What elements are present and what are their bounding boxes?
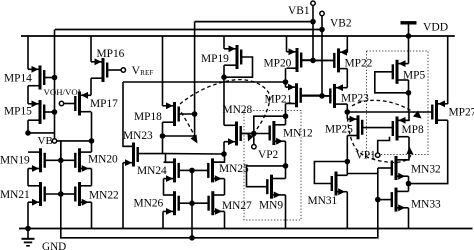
svg-text:VDD: VDD <box>423 21 448 34</box>
node MN26/MN27 gate <box>189 200 195 206</box>
svg-text:VP2: VP2 <box>258 149 279 161</box>
node MP23 drain <box>345 109 351 115</box>
wire MN31 source to ground <box>346 192 348 229</box>
svg-text:MP14: MP14 <box>4 73 32 85</box>
transistor MN32 <box>395 156 398 180</box>
node MN32/MN33 gate <box>375 197 381 203</box>
transistor MP18 <box>173 102 176 126</box>
node VREF bus end <box>283 79 289 85</box>
wire MN33 source to ground <box>408 208 410 229</box>
wire rail to MP19 source <box>223 36 225 49</box>
wire VB1 drop to MP18 <box>194 22 196 114</box>
transistor MN9 <box>270 175 273 199</box>
node MP15 drain <box>25 130 31 136</box>
wire MP5 drain down <box>408 80 410 93</box>
wire MP25 source <box>346 112 348 119</box>
wire MN27 source to ground <box>224 211 226 228</box>
wire MP20 drain down <box>285 68 287 82</box>
wire MP18 drain to MN23 gate <box>162 136 164 154</box>
transistor MP16 <box>102 58 105 82</box>
ground symbol <box>27 229 29 239</box>
transistor MP14 <box>39 66 42 90</box>
wire MP21 drain to MN28 gate <box>254 116 286 133</box>
svg-text:MP22: MP22 <box>345 58 373 70</box>
wire MP14 drain to MP15 source <box>27 86 29 104</box>
terminal VP2 <box>252 145 256 149</box>
transistor MP17 <box>78 92 81 116</box>
terminal VREF <box>121 68 125 72</box>
svg-text:VB1: VB1 <box>288 5 310 17</box>
transistor MN31 <box>335 172 338 196</box>
transistor MP25 <box>357 115 360 139</box>
wire to VB terminal <box>54 133 56 139</box>
node VB2 gate junction <box>319 93 325 99</box>
transistor MP8 <box>396 117 399 141</box>
wire MP25 drain down <box>346 136 348 162</box>
wire VDD rail (top, y=36) <box>21 35 455 37</box>
wire MN9 source to ground <box>285 195 287 229</box>
wire MN20 source to MN22 drain <box>91 169 93 186</box>
node VP2 gate junction <box>251 131 257 137</box>
wire MN25 source down <box>224 179 226 195</box>
node VDD-rail junction <box>406 33 412 39</box>
wire output to MP27 drain <box>409 120 448 183</box>
node MN19/MN20 gate <box>58 158 64 164</box>
terminal VOH/VOL <box>59 101 63 105</box>
svg-text:GND: GND <box>42 241 66 250</box>
wire rail to MP14 source <box>27 36 29 69</box>
wire MP8 source <box>399 112 410 120</box>
wire MP17 drain to VB node <box>91 112 93 141</box>
svg-text:MP15: MP15 <box>4 106 32 118</box>
wire MP18 drain down <box>162 122 164 136</box>
wire MP23 drain down <box>346 104 348 112</box>
wire MN24 source down <box>163 179 165 195</box>
svg-text:MP5: MP5 <box>403 70 425 82</box>
wire MN25 drain up <box>213 154 225 162</box>
svg-text:MN24: MN24 <box>137 165 167 177</box>
wire MN21 source to ground <box>27 202 29 228</box>
terminal VP1 <box>376 153 380 157</box>
wire VB2 drop to MP21/MP23 gates <box>321 30 323 96</box>
transistor MP22 <box>337 48 340 72</box>
dashed arrow B (MP18 to VP2) <box>180 80 270 137</box>
transistor MN22 <box>78 182 81 206</box>
node MP14 gate <box>52 75 58 81</box>
wire MN31 drain up <box>346 162 348 176</box>
node VB junction <box>89 138 95 144</box>
wire MN28 bus <box>166 153 225 155</box>
transistor MN28 <box>235 122 238 146</box>
wire gate chain to bias line <box>191 203 193 238</box>
wire VREF bus <box>123 81 286 83</box>
wire MN23 gate to MN24 drain <box>138 154 175 163</box>
node MP18 drain <box>160 133 166 139</box>
transistor MP19 <box>236 45 239 69</box>
svg-text:MN33: MN33 <box>411 199 441 211</box>
wire MN12 drain up <box>285 116 287 125</box>
svg-text:MN25: MN25 <box>219 163 249 175</box>
svg-text:MP18: MP18 <box>134 111 162 123</box>
wire rail to MP16 source <box>90 36 92 62</box>
wire MN33 drain up <box>408 184 410 192</box>
svg-text:MN21: MN21 <box>0 189 30 201</box>
dotted box output pair <box>367 51 429 155</box>
wire VREF down <box>123 82 134 146</box>
wire VB2 left drop <box>54 30 56 133</box>
svg-text:MN12: MN12 <box>283 128 313 140</box>
svg-text:MP23: MP23 <box>341 93 369 105</box>
svg-text:MN23: MN23 <box>123 130 153 142</box>
node MN33 drain <box>406 181 412 187</box>
transistor MP27 <box>435 100 438 124</box>
wire MN31 gate wrap <box>314 162 347 184</box>
wire MP8 source drop <box>408 93 410 112</box>
wire MN28 source down <box>223 142 225 154</box>
wire MP18 gate-drain link <box>163 114 195 136</box>
svg-text:MP20: MP20 <box>264 58 292 70</box>
wire MN20 drain up <box>91 141 93 152</box>
node VB1 rail junction <box>310 19 316 25</box>
wire MP21 drain down <box>285 104 287 117</box>
node MP5 diode <box>406 90 412 96</box>
node MP21 drain <box>283 113 289 119</box>
wire MP22 drain to MP23 source <box>346 69 348 88</box>
node VB1 gate junction <box>310 58 316 64</box>
terminal VB2 <box>320 11 324 15</box>
transistor MN27 <box>211 191 214 215</box>
wire rail to MP22 source <box>346 36 348 53</box>
svg-text:MP25: MP25 <box>325 123 353 135</box>
wire rail to MP27 source <box>447 36 449 104</box>
transistor MN33 <box>395 188 398 212</box>
wire MP19 drain down <box>223 65 225 77</box>
wire rail to MP18 source <box>162 36 164 106</box>
svg-text:VOH/VOL: VOH/VOL <box>44 87 84 97</box>
svg-text:MP8: MP8 <box>402 124 424 136</box>
wire MN22 source to ground <box>91 202 93 228</box>
wire MP20/MP22 gate wire <box>301 59 334 61</box>
wire MP21 source <box>285 82 287 87</box>
wire MP16 drain to MP17 source <box>90 78 92 95</box>
transistor MP23 <box>333 84 336 108</box>
node MN21/MN22 gate <box>58 191 64 197</box>
dashed arrow A (MP18 to MN24 gate) <box>178 107 196 138</box>
wire VB1 rail (y=21.6) <box>195 21 313 23</box>
transistor MP20 <box>296 48 299 72</box>
wire MN23 source to ground <box>122 163 124 229</box>
svg-text:MN32: MN32 <box>411 164 441 176</box>
svg-text:VB: VB <box>38 135 53 147</box>
transistor MN25 <box>211 158 214 182</box>
node MN9 drain <box>283 163 289 169</box>
svg-text:MN19: MN19 <box>0 155 30 167</box>
transistor MN12 <box>272 121 275 145</box>
svg-text:MN26: MN26 <box>134 198 164 210</box>
wire bias bottom line <box>61 141 378 238</box>
svg-text:MP17: MP17 <box>90 98 118 110</box>
transistor MP15 <box>39 100 42 124</box>
wire MP19 gate loop <box>224 57 253 77</box>
svg-text:MN9: MN9 <box>259 200 283 212</box>
svg-text:MN20: MN20 <box>88 154 118 166</box>
transistor MP21 <box>295 83 298 107</box>
terminal VB <box>52 139 56 143</box>
wire MN26 source to ground <box>162 211 164 228</box>
wire MP8 drain to MN32 drain <box>398 137 409 160</box>
wire MP5 gate loop <box>375 72 408 93</box>
wire VB to MN20 drain <box>57 140 92 142</box>
terminal VB1 <box>311 1 315 5</box>
svg-text:MN22: MN22 <box>89 190 119 202</box>
wire MN9 gate wrap <box>247 166 286 187</box>
wire VB1 drop to MP20/MP22 gates <box>312 22 314 61</box>
transistor MN26 <box>173 191 176 215</box>
node ground junction <box>25 226 31 232</box>
node bias line junction <box>189 235 195 241</box>
wire MN12 source down <box>285 141 287 166</box>
svg-text:MP19: MP19 <box>201 53 229 65</box>
wire VB2 rail (y=29.5) <box>55 29 322 31</box>
wire MP25/MP8 gate wire <box>362 127 393 129</box>
wire gate chain down <box>60 160 62 194</box>
transistor MN23 <box>132 143 135 167</box>
wire VB gate tap <box>60 141 62 160</box>
node MP25 drain <box>345 159 351 165</box>
wire MN9 drain up <box>285 166 287 179</box>
wire rail to MP20 source <box>286 36 288 52</box>
ground rail <box>19 228 473 230</box>
dotted box inner loop <box>244 111 301 221</box>
wire rail to MP5 source <box>408 36 410 64</box>
wire VP2 stub <box>253 134 255 145</box>
wire bias to MN32 gates <box>347 173 378 175</box>
wire MP21/MP23 gate wire <box>301 95 331 97</box>
wire MP23-MP8 bus to MP27 gate <box>347 111 432 113</box>
node MN24/MN25 gate <box>189 168 195 174</box>
wire MN19 source to MN21 drain <box>27 169 29 186</box>
node VB2 rail junction <box>319 27 325 33</box>
wire MP19 to MN28 drain <box>223 77 225 125</box>
svg-text:MN27: MN27 <box>222 200 252 212</box>
svg-text:MN31: MN31 <box>308 195 338 207</box>
wire MP15 drain to VB <box>28 132 55 134</box>
transistor MP5 <box>396 60 399 84</box>
wire MN28/MN12 gate wire <box>241 133 270 135</box>
svg-text:VB2: VB2 <box>330 18 352 30</box>
svg-text:MP27: MP27 <box>449 107 474 119</box>
node MP15 gate <box>52 109 58 115</box>
node MN23-gate bus <box>221 151 227 157</box>
transistor MN19 <box>39 148 42 172</box>
node MP19 diode <box>221 74 227 80</box>
wire MN32 source down <box>408 176 410 183</box>
transistor MN24 <box>173 158 176 182</box>
wire MP15 drain down <box>27 120 29 133</box>
power VDD symbol <box>401 21 417 24</box>
dashed arrow C (MP23 to MP8) <box>352 100 414 112</box>
dashed arrow D (VP1 to MP8 drain) <box>348 118 412 163</box>
wire gate chain mid <box>191 170 193 203</box>
node MP18 gate <box>192 111 198 117</box>
transistor MN20 <box>78 148 81 172</box>
transistor MN21 <box>39 182 42 206</box>
svg-text:MP16: MP16 <box>97 48 125 60</box>
wire MP8 drain to VP1 <box>378 137 390 153</box>
